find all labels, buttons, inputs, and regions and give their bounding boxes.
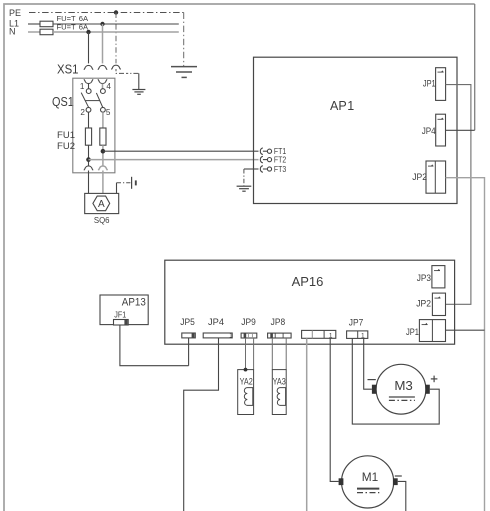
fuse FU on N <box>40 29 53 35</box>
svg-text:PE: PE <box>9 8 21 18</box>
connector JP9 divider2 <box>251 333 253 338</box>
wire QS1 to SQ6 right <box>102 171 104 194</box>
module AP1 box <box>254 57 458 203</box>
wire FT3 feed <box>244 168 259 170</box>
svg-text:FU1: FU1 <box>57 130 75 140</box>
svg-text:FT3: FT3 <box>274 164 286 174</box>
connector JP8 body <box>268 333 292 338</box>
connector JP1 (AP16) pin1 arrow <box>422 323 428 325</box>
wire XS1 pin3 to PE ground (dash-dot) <box>116 69 139 73</box>
connector JP4 (AP16 bottom) body <box>203 333 232 338</box>
wire JP2(AP1) to JP1(AP16) and down <box>446 178 485 511</box>
connector JP9 divider <box>247 333 249 338</box>
switch QS1 contact 5 circle <box>101 107 106 112</box>
wire ground drop XS1 PE <box>138 73 140 89</box>
fuse FU on L1 <box>40 21 53 27</box>
wire JP5 down <box>188 338 190 366</box>
wire JP8 pin to YA3 right <box>285 338 287 370</box>
switch QS1 blade 2 <box>96 93 102 108</box>
svg-text:M1: M1 <box>362 470 379 484</box>
connector JP1 (AP1) body <box>436 68 446 101</box>
svg-text:FU=T 6A: FU=T 6A <box>57 23 89 32</box>
svg-text:2: 2 <box>80 108 85 117</box>
module AP16 box <box>165 260 455 344</box>
connector arc QS1 out right <box>98 166 107 170</box>
wire PE to XS1 pin3 (dash-dot) <box>115 13 117 64</box>
svg-text:N: N <box>9 27 16 37</box>
connector JP5 pin1 mark <box>192 333 195 337</box>
wire JP8 pin to YA3 left <box>271 338 273 370</box>
wire XS1 pin1 to QS1 contact1 <box>88 84 90 89</box>
wire JP1(AP1) to JP2(AP16) <box>446 85 471 305</box>
connector JP2 (AP1) body <box>426 161 446 193</box>
svg-text:JP2: JP2 <box>416 298 431 308</box>
wire L1 to XS1 pin2 <box>102 24 104 63</box>
connector JP3 (AP16) pin1 arrow <box>434 269 440 271</box>
wire contact5 to fuse FU2 <box>102 112 104 128</box>
connector JP2 (AP1) divider <box>434 161 436 193</box>
svg-text:JP8: JP8 <box>271 317 286 327</box>
junction FT2 feed <box>86 157 91 162</box>
svg-text:JP2: JP2 <box>412 172 427 182</box>
connector X1 divider <box>311 330 313 338</box>
junction YA2 top <box>244 368 248 372</box>
wire X1 down to edge <box>306 338 308 511</box>
motor M3 plus mark <box>431 376 438 383</box>
svg-text:SQ6: SQ6 <box>94 215 110 225</box>
connector JP7 body <box>347 331 368 339</box>
connector JP8 divider <box>274 333 276 338</box>
fuse FU1 body <box>85 128 91 145</box>
connector JP2 (AP16) pin1 arrow <box>435 296 441 298</box>
switch QS1 link bar <box>85 100 100 102</box>
ground XS1 PE <box>132 90 145 95</box>
wire X1 to M1 left terminal <box>330 338 338 481</box>
connector JP7 divider <box>357 331 359 339</box>
connector X1 (unnamed) body <box>302 330 336 338</box>
motor M3 right terminal <box>425 385 430 394</box>
wire PE corner down to ground (dash-dot) <box>183 13 185 67</box>
motor M1 right terminal <box>393 478 398 485</box>
connector FT1 symbol <box>260 148 271 155</box>
ground main PE <box>171 67 197 78</box>
valve YA3 box <box>272 370 286 415</box>
svg-text:JP7: JP7 <box>349 318 364 328</box>
motor M1 DC dash bar <box>357 492 379 494</box>
svg-text:XS1: XS1 <box>57 61 79 76</box>
motor M3 minus mark <box>368 379 376 381</box>
wire XS1 pin2 to QS1 contact4 <box>102 84 104 89</box>
connector XS1 pin2 plug arc <box>98 65 107 69</box>
connector JP2 (AP1) pin1 arrow <box>428 164 433 166</box>
connector JP1 (AP16) divider <box>431 320 433 342</box>
wire FT3 to ground (dash-dot) <box>243 169 245 186</box>
svg-text:YA2: YA2 <box>240 376 253 386</box>
connector JP9 body <box>241 333 257 338</box>
svg-text:5: 5 <box>106 108 111 117</box>
svg-text:YA3: YA3 <box>273 376 286 386</box>
junction N/XS1 <box>86 30 90 34</box>
valve YA2 box <box>238 370 254 415</box>
motor M3 left terminal <box>372 385 377 394</box>
connector JP5 body <box>182 333 196 338</box>
wire FT2 feed line to AP1 <box>89 159 259 161</box>
module AP13 box <box>100 295 148 325</box>
motor M3 DC bar <box>389 396 415 398</box>
connector JP8 pin1 mark <box>270 334 273 338</box>
svg-text:1: 1 <box>329 332 333 339</box>
wire fuse FU2 down <box>102 145 104 166</box>
switch QS1 contact 4 circle <box>101 89 106 94</box>
wire N left stub <box>28 31 40 33</box>
wire fuse FU1 down <box>88 145 90 166</box>
chassis bar long <box>131 177 133 189</box>
svg-text:QS1: QS1 <box>52 94 74 109</box>
junction L1/XS1 <box>100 22 104 26</box>
wire FT1 feed line to AP1 <box>103 150 259 152</box>
connector XS1 pin1 plug arc <box>84 65 93 69</box>
connector X1 divider2 <box>323 330 325 338</box>
connector JP1 (AP1) pin1 arrow <box>438 70 444 72</box>
connector FT3 symbol <box>260 166 271 173</box>
ground FT3 <box>237 186 252 191</box>
svg-text:JP1: JP1 <box>406 327 419 337</box>
junction PE/XS1 <box>114 10 118 14</box>
connector JP8 divider2 <box>282 333 284 338</box>
svg-text:1: 1 <box>347 99 354 113</box>
connector XS1 pin1 socket arc <box>84 79 93 83</box>
motor M1 DC bar <box>357 488 379 490</box>
wire JP4 net vertical riser <box>474 4 476 130</box>
connector JF1 pin1 mark <box>124 320 127 325</box>
svg-text:JP5: JP5 <box>180 317 195 327</box>
wire JP1(AP16) to right net <box>446 329 485 331</box>
wire JP9 pin to YA2 left <box>245 338 247 370</box>
wire N rail <box>53 31 179 33</box>
wire JP7 to M3 plus loop <box>352 338 439 424</box>
fuse FU2 body <box>100 128 106 145</box>
svg-text:4: 4 <box>106 82 111 91</box>
svg-text:FU2: FU2 <box>57 141 75 151</box>
connector arc QS1 out left <box>84 166 93 170</box>
connector JF1 body <box>114 320 129 326</box>
connector JP1 (AP16) body <box>419 320 445 342</box>
svg-text:JP9: JP9 <box>241 317 256 327</box>
connector JP2 (AP16) body <box>432 293 445 315</box>
valve YA2 coil <box>244 388 252 406</box>
connector JP3 (AP16) body <box>432 266 445 288</box>
wire L1 left stub <box>28 23 40 25</box>
connector JP4 (AP1) pin1 arrow <box>438 118 444 120</box>
switch QS1 contact 1 circle <box>86 89 91 94</box>
wire M1 right to bottom <box>398 481 406 511</box>
svg-text:M3: M3 <box>394 378 413 393</box>
motor M1 left terminal <box>339 478 344 485</box>
chassis bar short <box>135 180 137 185</box>
wire JF1 to JP5 <box>120 325 189 366</box>
sensor SQ6 body <box>85 193 119 213</box>
svg-text:A: A <box>98 199 105 210</box>
connector XS1 pin3 plug arc <box>112 65 121 69</box>
sensor SQ6 hexagon <box>93 196 110 211</box>
svg-text:JF1: JF1 <box>114 310 126 320</box>
wire QS1 to SQ6 left <box>88 171 90 194</box>
svg-text:JP4: JP4 <box>208 317 224 327</box>
connector XS1 pin2 socket arc <box>98 79 107 83</box>
junction FT1 feed <box>101 149 106 154</box>
wire SQ6 shield dash-dot <box>117 182 131 184</box>
svg-text:1: 1 <box>80 82 85 91</box>
wire JP9 pin to YA2 right <box>253 338 255 370</box>
svg-text:AP13: AP13 <box>122 297 146 309</box>
connector JP4 (AP1) body <box>436 114 446 146</box>
svg-text:AP: AP <box>330 99 347 113</box>
switch QS1 body box <box>73 78 115 173</box>
wire JP4(AP16) down-left to bottom <box>184 338 219 511</box>
switch QS1 blade 1 <box>81 93 88 108</box>
connector JP9 pin1 mark <box>244 334 247 338</box>
wire JP4(AP1) to top bus <box>446 129 475 131</box>
connector FT2 symbol <box>260 156 271 163</box>
switch QS1 contact 2 circle <box>86 107 91 112</box>
wire JP7 to M3 minus <box>364 338 372 389</box>
wire PE rail (dash-dot) <box>29 12 184 14</box>
motor M3 DC dash bar <box>389 399 415 401</box>
motor M3 circle <box>376 364 426 414</box>
valve YA3 coil <box>277 388 285 406</box>
svg-text:JP1: JP1 <box>423 79 436 89</box>
wire contact2 to fuse FU1 <box>88 112 90 128</box>
svg-text:JP3: JP3 <box>417 273 431 283</box>
wire L1 rail <box>53 23 179 25</box>
svg-text:1: 1 <box>361 332 365 339</box>
wire N to XS1 pin1 <box>88 32 90 63</box>
svg-text:JP4: JP4 <box>422 126 436 136</box>
motor M1 minus mark <box>395 475 402 477</box>
motor M1 circle <box>342 456 394 508</box>
svg-text:AP16: AP16 <box>292 274 324 289</box>
wire SQ6 shield pin <box>116 183 118 194</box>
